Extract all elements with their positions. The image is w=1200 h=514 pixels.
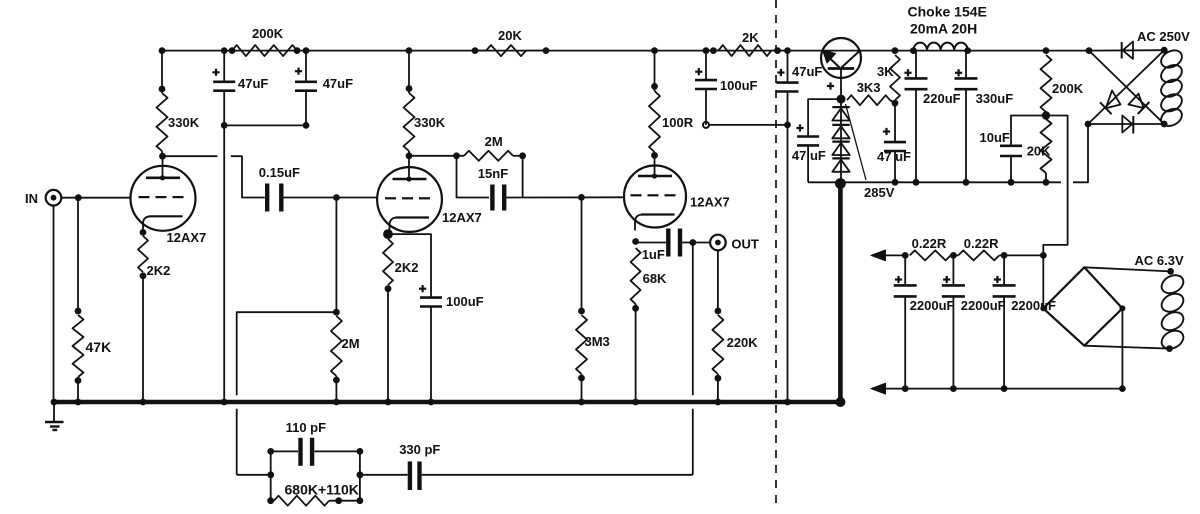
- wire feedback entry: [237, 474, 271, 476]
- capacitor 47uF C9: [797, 137, 819, 146]
- resistor 3K R16: [890, 55, 900, 100]
- wire feedback drop upper: [692, 243, 694, 396]
- node R21 right: [335, 497, 342, 504]
- resistor 20K R8: [486, 45, 526, 56]
- wire 110pF right lead: [315, 450, 360, 452]
- wire to V3 grid: [523, 196, 624, 198]
- wire C8 to ground bus: [787, 92, 789, 402]
- node 47K bottom: [75, 377, 82, 384]
- svg-text:330K: 330K: [414, 115, 446, 130]
- node heater rail b: [950, 252, 957, 259]
- node bridge2 left: [1040, 305, 1046, 311]
- capacitor 15nF C5: [492, 185, 504, 211]
- label 47uF C8: [792, 64, 822, 79]
- resistor 220K R13: [712, 315, 723, 374]
- svg-text:47 uF: 47 uF: [877, 149, 911, 164]
- label + C2: [295, 68, 302, 75]
- wire Q1 base lead: [840, 69, 842, 100]
- wire 15nF left leg: [457, 156, 490, 198]
- node fb box MR: [357, 471, 364, 478]
- resistor 330K R1: [157, 93, 168, 151]
- node 47K top: [75, 308, 82, 315]
- node ground bus junction x431: [428, 399, 435, 406]
- wire 100R top lead: [654, 51, 656, 91]
- label + C9: [796, 124, 803, 131]
- node R6 rail: [406, 47, 413, 54]
- svg-text:3K: 3K: [877, 64, 894, 79]
- node R18 bottom: [1043, 179, 1050, 186]
- diode D2 bottom: [1122, 116, 1133, 134]
- jack OUT outer: [710, 235, 726, 251]
- svg-text:2M: 2M: [485, 134, 503, 149]
- svg-text:100uF: 100uF: [446, 294, 484, 309]
- wire 100R bottom stub: [654, 152, 656, 155]
- label 100R R11: [662, 115, 694, 130]
- wire fb box right: [359, 451, 361, 500]
- wire R12 bottom lead: [635, 304, 637, 402]
- label 2K2 R4: [147, 263, 171, 278]
- label 12AX7 V1: [167, 230, 207, 245]
- wire bridge2 right leg: [1121, 308, 1123, 388]
- capacitor 2200uF C15: [942, 285, 965, 296]
- node fb box TR: [357, 448, 364, 455]
- node V3 plate: [651, 152, 658, 159]
- node R2 left: [229, 47, 236, 54]
- node R14 right: [774, 47, 781, 54]
- resistor 3K3 R15: [847, 95, 890, 105]
- label 3K3 R15: [857, 80, 881, 95]
- capacitor 47uF C1: [213, 82, 235, 91]
- capacitor 0.15uF C3: [267, 184, 281, 212]
- label 2K R14: [742, 30, 759, 45]
- label 47uF C2: [323, 76, 353, 91]
- label Choke 154E: [908, 4, 987, 20]
- svg-text:68K: 68K: [643, 271, 667, 286]
- node R9 right: [519, 152, 526, 159]
- svg-text:12AX7: 12AX7: [167, 230, 207, 245]
- wire C12 bottom lead: [965, 89, 967, 182]
- capacitor 1uF C6: [668, 229, 680, 257]
- node regulator common corner: [835, 178, 846, 189]
- wire R14 right stub: [771, 50, 787, 52]
- label 680K+110K: [285, 482, 359, 498]
- node 3M3 bottom: [578, 375, 585, 382]
- svg-text:220K: 220K: [727, 335, 759, 350]
- wire feedback below bus: [236, 409, 238, 475]
- svg-text:47K: 47K: [86, 339, 112, 355]
- svg-text:47uF: 47uF: [792, 64, 822, 79]
- svg-text:10uF: 10uF: [980, 130, 1010, 145]
- wire heater plus rail: [884, 254, 905, 256]
- triode V1 12AX7: [131, 156, 196, 232]
- wire bridge2 left leg: [1042, 255, 1044, 308]
- label AC 250V: [1137, 29, 1190, 44]
- wire C3 to V2 grid: [284, 197, 378, 199]
- label 285V leader: [846, 104, 867, 180]
- node fb box BR: [357, 497, 364, 504]
- node ground bus junction x143: [140, 399, 147, 406]
- wire bridge2 bottom to coil: [1084, 346, 1169, 349]
- svg-text:330 pF: 330 pF: [399, 442, 440, 457]
- wire grid leak drop: [335, 198, 337, 313]
- transistor Q1 emitter arrow: [823, 50, 836, 63]
- label IN: [25, 191, 38, 206]
- resistor 330K R6: [404, 93, 415, 151]
- node fb box TL: [267, 448, 274, 455]
- node fb box ML: [267, 471, 274, 478]
- label + C16: [994, 276, 1001, 283]
- node ground bus junction x224: [221, 399, 228, 406]
- wire R15 to 3K: [890, 100, 895, 103]
- node V2 grid junction: [333, 194, 340, 201]
- capacitor 2200uF C15 top lead: [952, 255, 954, 285]
- separator dashed line: [775, 0, 777, 509]
- wire R4 to ground: [142, 276, 144, 402]
- capacitor 2200uF C16: [993, 285, 1016, 296]
- wire bridge1 diagonal B: [1088, 50, 1164, 124]
- wire R14 left stub: [713, 50, 718, 52]
- svg-text:2K: 2K: [742, 30, 759, 45]
- capacitor 10uF C13: [1000, 146, 1022, 156]
- node bridge1 BL: [1085, 121, 1092, 128]
- svg-text:100R: 100R: [662, 115, 694, 130]
- label 1uF C6: [642, 247, 665, 262]
- svg-text:20mA 20H: 20mA 20H: [910, 21, 977, 37]
- svg-text:0.22R: 0.22R: [912, 236, 947, 251]
- diode zener string D5-D8: [832, 107, 849, 172]
- label 110 pF: [286, 420, 327, 435]
- label 2200uF C15: [961, 298, 1006, 313]
- resistor 2K R14: [718, 45, 771, 56]
- label 20K R18: [1027, 144, 1051, 159]
- wire C4 top lead: [388, 234, 431, 298]
- label 47K R3: [86, 339, 112, 355]
- capacitor 2200uF C14: [894, 285, 917, 296]
- node R6 top: [406, 85, 413, 92]
- node ground bus junction x717: [715, 399, 722, 406]
- node C13 bottom: [1008, 179, 1015, 186]
- resistor 47K R3: [73, 315, 84, 377]
- svg-text:3M3: 3M3: [585, 334, 610, 349]
- diode D4 diag right: [1129, 94, 1150, 114]
- wire rail stub ab: [951, 254, 959, 256]
- node rail left corner: [159, 47, 166, 54]
- wire bridge1 bottom edge: [1088, 123, 1164, 125]
- svg-text:2200uF: 2200uF: [961, 298, 1006, 313]
- wire IN to grid: [61, 197, 131, 199]
- node 220K bottom: [715, 375, 722, 382]
- capacitor 330uF C12: [955, 78, 978, 89]
- wire R8 left stub: [475, 50, 486, 52]
- svg-text:AC 6.3V: AC 6.3V: [1135, 253, 1184, 268]
- node 3M3 top: [578, 308, 585, 315]
- wire 10uF top leg: [1011, 116, 1046, 146]
- label 20mA 20H: [910, 21, 977, 37]
- resistor 2M R9: [464, 151, 513, 161]
- node C2 rail: [303, 47, 310, 54]
- resistor 2K2 R7: [383, 239, 393, 285]
- node coil1 bottom: [1161, 121, 1168, 128]
- wire C2 bottom lead: [305, 91, 307, 126]
- svg-text:47uF: 47uF: [238, 76, 268, 91]
- capacitor 47uF C8 top lead: [787, 51, 789, 83]
- wire B+ top rail: [162, 50, 1089, 52]
- wire 220K bottom lead: [717, 374, 719, 402]
- wire C1 ground drop: [223, 91, 225, 402]
- label 2200uF C16: [1011, 298, 1056, 313]
- svg-text:2K2: 2K2: [147, 263, 171, 278]
- svg-text:AC 250V: AC 250V: [1137, 29, 1190, 44]
- node 100R top: [651, 83, 658, 90]
- wire 1uF to OUT: [682, 242, 710, 244]
- node 200K rail: [1043, 47, 1050, 54]
- node V1 cathode: [140, 229, 147, 236]
- node V1 plate: [159, 153, 166, 160]
- svg-text:110 pF: 110 pF: [286, 420, 327, 435]
- node heater rail a: [902, 252, 909, 259]
- svg-text:200K: 200K: [1052, 81, 1084, 96]
- svg-text:100uF: 100uF: [720, 78, 758, 93]
- node R4 bottom: [140, 272, 147, 279]
- capacitor 2200uF C16 bottom lead: [1003, 297, 1005, 389]
- wire 330K R1 top lead: [161, 51, 163, 93]
- wire thick ground return vertical: [838, 184, 843, 403]
- node V3 cathode: [632, 238, 639, 245]
- jack IN pin: [51, 195, 57, 201]
- node ground bus junction x581: [578, 399, 585, 406]
- transistor Q1 body: [821, 38, 861, 78]
- node 2M top: [333, 309, 340, 316]
- node R2 right: [294, 47, 301, 54]
- resistor 0.22R R19: [910, 250, 951, 260]
- transistor Q1 base bar: [828, 67, 855, 70]
- node R8 left: [472, 47, 479, 54]
- label 47uF C1: [238, 76, 268, 91]
- resistor 3M3 R10: [576, 315, 587, 374]
- wire zener string spine: [840, 99, 842, 182]
- label 2200uF C14: [910, 298, 955, 313]
- wire C7 to C8 join: [709, 124, 788, 126]
- capacitor 47uF C10: [884, 142, 906, 151]
- wire V2 plate to 2M: [409, 155, 464, 157]
- label 10uF C13: [980, 130, 1010, 145]
- capacitor 47uF C1 top lead: [223, 51, 225, 82]
- node feedback takeoff: [689, 239, 696, 246]
- wire 3M3 top lead: [581, 197, 583, 311]
- label 47uF C10: [877, 149, 911, 164]
- label 100uF C7: [720, 78, 758, 93]
- wire V1 plate right a: [163, 155, 218, 157]
- resistor 100R R11: [649, 91, 660, 152]
- node bridge2 feed: [1040, 252, 1047, 259]
- wire cathode to 1uF: [636, 242, 666, 244]
- capacitor 100uF C7 top lead: [705, 51, 707, 81]
- transistor Q1 emitter lead: [822, 51, 839, 68]
- wire R6 bottom stub: [408, 151, 410, 156]
- node ground bus junction x635: [632, 399, 639, 406]
- node C8 join: [784, 122, 791, 129]
- label 220uF C11: [923, 91, 961, 106]
- label + C11: [904, 69, 911, 76]
- label 2K2 R7: [395, 260, 419, 275]
- node 100R rail: [651, 47, 658, 54]
- node bridge2 right: [1119, 305, 1125, 311]
- resistor 200K R2: [232, 45, 297, 56]
- label 330 pF: [399, 442, 440, 457]
- label 330uF C12: [976, 91, 1014, 106]
- node coil1 top: [1161, 47, 1168, 54]
- svg-text:220uF: 220uF: [923, 91, 961, 106]
- diode D3 diag left: [1100, 91, 1121, 115]
- node bus end corner: [835, 397, 845, 407]
- node zero rail d: [1119, 385, 1126, 392]
- node R8 right: [543, 47, 550, 54]
- wire 3M3 bottom lead: [581, 374, 583, 402]
- node C10 bottom: [892, 179, 899, 186]
- node C7 rail: [703, 47, 710, 54]
- wire regulator common right: [1073, 124, 1088, 182]
- rectifier bridge2 diamond: [1043, 267, 1122, 345]
- wire 15nF right leg: [506, 156, 523, 198]
- node R5 bottom: [333, 377, 340, 384]
- node ground bus junction x78: [75, 399, 82, 406]
- transformer heater coil: [1158, 272, 1186, 353]
- capacitor 47uF C2 top lead: [305, 51, 307, 82]
- node ground bus junction x54: [51, 399, 58, 406]
- capacitor 330uF C12 top lead: [965, 51, 967, 79]
- capacitor 47uF C8: [777, 83, 799, 92]
- wire V1 plate stub: [161, 151, 163, 156]
- label 47uF C9: [792, 148, 826, 163]
- label 100uF C4: [446, 294, 484, 309]
- node C11 bottom: [913, 179, 920, 186]
- wire 2M top to feedback: [237, 312, 337, 395]
- label 200K R2: [252, 26, 284, 41]
- wire C9 top leg: [808, 99, 841, 136]
- node V2 plate: [406, 152, 413, 159]
- triode V3 12AX7: [624, 154, 686, 230]
- node R14 left: [710, 47, 717, 54]
- wire C9 bottom leg: [807, 146, 809, 183]
- wire 47K top lead: [77, 198, 79, 311]
- node IN junction: [75, 194, 82, 201]
- capacitor 220uF C11: [905, 78, 928, 89]
- ground symbol: [45, 402, 64, 430]
- triode V2 12AX7: [377, 157, 442, 233]
- node 3K rail: [892, 47, 899, 54]
- node C12 bottom: [963, 179, 970, 186]
- svg-text:330K: 330K: [168, 115, 200, 130]
- label + C1: [212, 69, 219, 76]
- wire C1-C2 bottom join: [224, 124, 306, 126]
- capacitor 2200uF C14 top lead: [904, 255, 906, 285]
- capacitor 2200uF C14 bottom lead: [904, 297, 906, 389]
- wire heater zero rail arrow: [871, 383, 886, 394]
- label 68K R12: [643, 271, 667, 286]
- svg-text:20K: 20K: [498, 28, 522, 43]
- wire rail to bridge2: [999, 254, 1043, 256]
- node ground bus junction x388: [385, 399, 392, 406]
- label 0.22R R20: [964, 236, 999, 251]
- label + C8: [777, 69, 784, 76]
- transistor Q1 collector lead: [842, 51, 860, 68]
- svg-text:12AX7: 12AX7: [690, 195, 730, 210]
- svg-text:2200uF: 2200uF: [1011, 298, 1056, 313]
- node R17-R18 junction: [1042, 111, 1050, 119]
- svg-text:47uF: 47uF: [323, 76, 353, 91]
- label 15nF C5: [478, 166, 508, 181]
- label + C14: [895, 276, 902, 283]
- jack IN outer: [46, 190, 62, 206]
- label 285V: [864, 185, 895, 200]
- node fb box BL: [267, 497, 274, 504]
- wire heater rail arrow: [871, 250, 886, 261]
- node 3K bottom: [892, 100, 899, 107]
- capacitor 100uF C7: [695, 80, 717, 89]
- resistor 0.22R R20: [958, 250, 999, 260]
- wire C10 bottom lead: [894, 151, 896, 182]
- svg-text:IN: IN: [25, 191, 38, 206]
- resistor 680K+110K R21: [274, 496, 329, 506]
- label 0.22R R19: [912, 236, 947, 251]
- wire C13 bottom lead: [1010, 155, 1012, 182]
- resistor 2K2 R4: [138, 236, 148, 272]
- svg-text:1uF: 1uF: [642, 247, 665, 262]
- node heater rail c: [1001, 252, 1008, 259]
- svg-text:200K: 200K: [252, 26, 284, 41]
- label + C7: [695, 68, 702, 75]
- wire V1 plate right b: [231, 156, 265, 197]
- wire 330K R6 top lead: [408, 51, 410, 93]
- node ground bus junction x787: [784, 399, 791, 406]
- node zero rail b: [950, 385, 957, 392]
- label OUT: [731, 237, 759, 252]
- label 3K R16: [877, 64, 894, 79]
- resistor 68K R12: [631, 248, 641, 304]
- capacitor 47uF C2: [295, 82, 317, 91]
- diode D1 top: [1122, 42, 1133, 60]
- ground bus thick: [53, 400, 840, 405]
- node V2 cathode: [383, 229, 393, 239]
- node coil2 bottom: [1166, 345, 1173, 352]
- wire 110pF left lead: [271, 450, 298, 452]
- wire C7 bottom lead: [705, 89, 707, 125]
- node R12 bottom: [632, 305, 639, 312]
- node 220K top: [715, 308, 722, 315]
- node V3 grid junction: [578, 194, 585, 201]
- svg-text:2200uF: 2200uF: [910, 298, 955, 313]
- capacitor 330pF C18: [410, 461, 420, 490]
- node C1 rail: [221, 47, 228, 54]
- label 330K R6: [414, 115, 446, 130]
- wire R18 bottom stub: [1045, 173, 1047, 182]
- wire feedback drop lower: [692, 409, 694, 475]
- wire C11 bottom lead: [915, 89, 917, 182]
- wire C4 bottom lead: [430, 307, 432, 403]
- svg-text:20K: 20K: [1027, 144, 1051, 159]
- svg-text:15nF: 15nF: [478, 166, 508, 181]
- wire R21 right lead: [329, 500, 360, 502]
- capacitor 110pF C17: [301, 438, 313, 466]
- node ground bus junction x336: [333, 399, 340, 406]
- label + C15: [943, 276, 950, 283]
- node R1 top: [159, 86, 166, 93]
- node 15nF branch: [453, 152, 460, 159]
- node bridge1 TL: [1086, 47, 1093, 54]
- label 330K R1: [168, 115, 200, 130]
- node choke right: [964, 47, 971, 54]
- capacitor 2200uF C15 bottom lead: [952, 297, 954, 389]
